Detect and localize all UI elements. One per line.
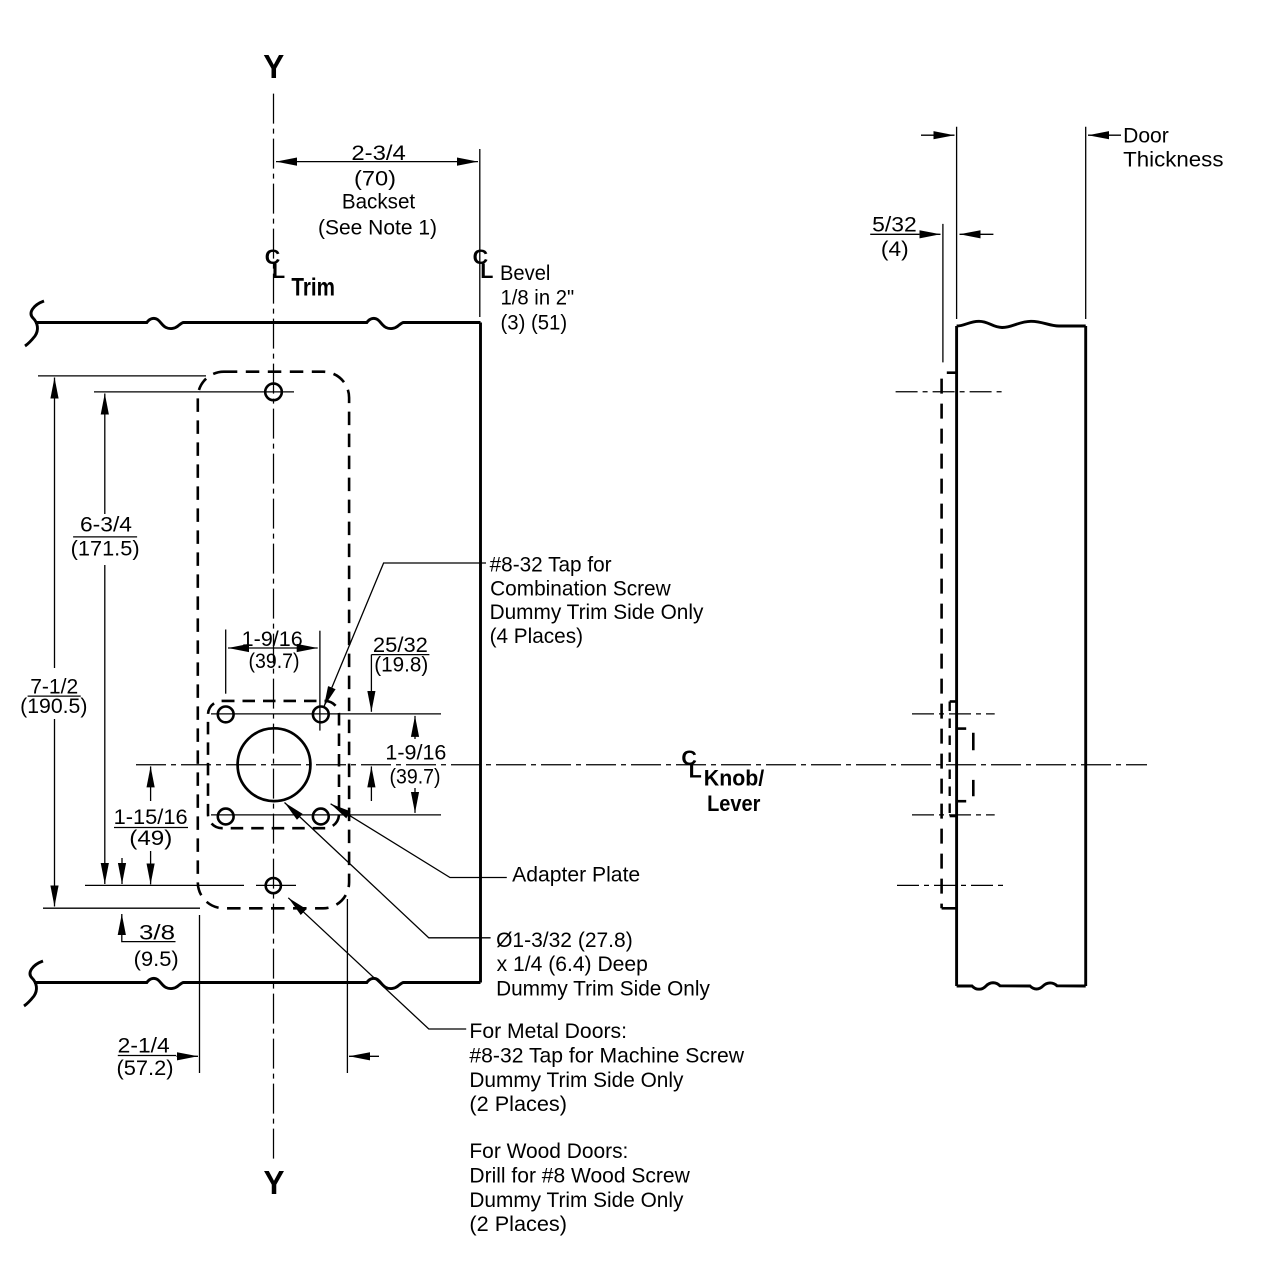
5/32 trim face extension line (942, 224, 944, 363)
5/32 underline (870, 233, 919, 235)
svg-text:Trim: Trim (291, 274, 335, 302)
door front view: right edge (479, 323, 482, 983)
svg-text:Y: Y (264, 1164, 285, 1201)
side view: centerline tick lower screws (912, 814, 995, 816)
dimension line 7-1/2 upper segment (54, 378, 56, 669)
svg-text:(2 Places): (2 Places) (469, 1212, 567, 1236)
svg-text:3/8: 3/8 (139, 921, 175, 945)
side view: recess hole bottom edge (957, 800, 966, 803)
svg-text:2-3/4: 2-3/4 (351, 141, 406, 165)
1-15/16 arrow down (150, 851, 152, 884)
backset right extension line (479, 149, 481, 317)
side view: trim top tick (947, 371, 957, 374)
row line top adapter screws (211, 713, 441, 715)
side view: centerline tick upper screws (912, 713, 995, 715)
2-1/4 extension right (346, 899, 348, 1073)
knob/lever hole circle (238, 728, 311, 801)
leader hole dia 1-3/32 (285, 803, 491, 938)
underline 2-1/4 (118, 1055, 176, 1057)
extension line through bottom screw row (85, 884, 244, 886)
svg-text:Adapter Plate: Adapter Plate (512, 863, 640, 887)
underline 7-1/2 (28, 695, 81, 697)
svg-text:(4 Places): (4 Places) (490, 624, 583, 648)
svg-text:(49): (49) (129, 826, 172, 850)
dimension line 6-3/4 lower segment (104, 565, 106, 884)
svg-text:Dummy Trim Side Only: Dummy Trim Side Only (490, 600, 704, 624)
svg-text:For Metal Doors:: For Metal Doors: (469, 1019, 627, 1043)
side view: recess hole depth dashed (972, 733, 975, 797)
side view: adapter plate bottom tick (950, 815, 957, 818)
svg-text:Dummy Trim Side Only: Dummy Trim Side Only (496, 976, 710, 1000)
side view: centerline tick bottom screw (897, 884, 1007, 886)
leader adapter plate (331, 804, 507, 878)
svg-text:Y: Y (263, 48, 284, 85)
25/32 arrow up to centerline (370, 766, 372, 801)
svg-text:(57.2): (57.2) (117, 1056, 174, 1080)
horizontal centerline knob/lever (136, 764, 1147, 766)
door thickness arrow right with tail to label (1088, 134, 1121, 136)
leader #8-32 tap combination screw (324, 563, 486, 707)
adapter screw hole bottom-left (218, 809, 234, 825)
right 1-9/16 arrow down (414, 788, 416, 813)
side view: recess hole top edge (957, 727, 966, 730)
side view: centerline tick top screw (896, 391, 1007, 393)
side view: door top edge with break (957, 321, 1086, 327)
side view: door back extension line (1085, 127, 1087, 319)
svg-text:Dummy Trim Side Only: Dummy Trim Side Only (469, 1188, 683, 1212)
svg-text:Knob/: Knob/ (704, 766, 764, 791)
extension 1-9/16 right (319, 631, 321, 731)
svg-text:(3) (51): (3) (51) (501, 310, 568, 334)
5/32 opposing arrow left (960, 233, 994, 235)
svg-text:6-3/4: 6-3/4 (80, 513, 132, 537)
3/8 arrow down (121, 858, 123, 884)
dimension line 1-9/16 horizontal (228, 647, 318, 649)
underline 6-3/4 (73, 536, 137, 538)
25/32 leader arrow down (370, 655, 372, 712)
svg-text:(9.5): (9.5) (134, 947, 179, 971)
svg-text:2-1/4: 2-1/4 (118, 1034, 170, 1058)
adapter plate outline dashed rounded rect (208, 701, 339, 828)
3/8 arrow up with bracket to underline (122, 914, 176, 942)
dimension line 6-3/4 upper segment (104, 394, 106, 515)
dimension line 7-1/2 lower segment (54, 719, 56, 907)
crosshair bottom screw (256, 884, 296, 886)
svg-text:Bevel: Bevel (500, 261, 550, 285)
svg-text:For Wood Doors:: For Wood Doors: (469, 1139, 628, 1163)
vertical centerline Y-Y (273, 94, 275, 1163)
svg-text:(70): (70) (354, 166, 396, 190)
side view: door bottom edge with break (957, 983, 1086, 989)
extension 1-9/16 left (225, 630, 227, 694)
extension line 6-3/4 top through top screw (94, 391, 294, 393)
right 1-9/16 arrow up (414, 716, 416, 739)
side view: door right face (1084, 326, 1087, 986)
svg-text:L: L (480, 259, 493, 283)
svg-text:x 1/4 (6.4) Deep: x 1/4 (6.4) Deep (497, 952, 648, 976)
side view: adapter plate face dashed (949, 702, 951, 817)
1-15/16 arrow up to centerline (150, 766, 152, 801)
svg-text:(2 Places): (2 Places) (469, 1092, 567, 1116)
svg-text:1/8 in 2": 1/8 in 2" (501, 286, 575, 310)
2-1/4 arrow left (349, 1055, 379, 1057)
svg-text:Thickness: Thickness (1123, 147, 1223, 171)
door thickness arrow left (921, 134, 955, 136)
svg-text:1-9/16: 1-9/16 (242, 627, 303, 651)
svg-text:Combination Screw: Combination Screw (490, 577, 671, 601)
leader for metal doors (288, 898, 466, 1029)
svg-text:(19.8): (19.8) (374, 653, 428, 677)
svg-text:(171.5): (171.5) (71, 536, 140, 560)
5/32 arrow right (919, 233, 940, 235)
svg-text:Dummy Trim Side Only: Dummy Trim Side Only (469, 1068, 683, 1092)
door front view: bottom edge with break squiggles (34, 978, 481, 988)
svg-text:Backset: Backset (342, 190, 415, 214)
svg-text:L: L (689, 759, 702, 783)
svg-text:Ø1-3/32 (27.8): Ø1-3/32 (27.8) (496, 928, 633, 952)
svg-text:L: L (272, 259, 285, 283)
side view: adapter plate top tick (950, 700, 957, 703)
svg-text:(39.7): (39.7) (249, 649, 300, 673)
svg-text:(190.5): (190.5) (20, 694, 87, 718)
row line bottom adapter screws (211, 814, 441, 816)
trim mounting screw hole bottom (266, 878, 281, 893)
25/32 underline (371, 654, 429, 656)
svg-text:Door: Door (1123, 124, 1169, 148)
svg-text:(39.7): (39.7) (390, 765, 441, 789)
door front view: top edge with break squiggles (35, 318, 481, 328)
side view: trim bottom tick (942, 907, 957, 910)
svg-text:Drill for #8 Wood Screw: Drill for #8 Wood Screw (469, 1164, 690, 1188)
dummy trim outline dashed rounded rect (198, 372, 349, 909)
svg-text:(See Note 1): (See Note 1) (318, 216, 437, 240)
backset dimension line (276, 161, 478, 163)
door front view: left break S-curve top (25, 301, 44, 346)
svg-text:#8-32 Tap for: #8-32 Tap for (490, 552, 612, 576)
2-1/4 arrow right (177, 1055, 199, 1057)
side view: door face extension line (956, 127, 958, 319)
svg-text:1-9/16: 1-9/16 (385, 741, 446, 765)
svg-text:5/32: 5/32 (872, 212, 917, 236)
2-1/4 extension left (199, 915, 201, 1073)
side view: door left face (955, 326, 958, 986)
trim mounting screw hole top (265, 384, 282, 401)
side view: trim outer face dashed (940, 379, 943, 909)
adapter screw hole bottom-right (313, 809, 329, 825)
svg-text:Lever: Lever (707, 791, 761, 816)
door front view: left break S-curve bottom (24, 961, 43, 1006)
underline 1-15/16 (114, 827, 188, 829)
adapter screw hole top-right (313, 707, 329, 723)
adapter screw hole top-left (218, 707, 234, 723)
extension line 7-1/2 bottom (43, 907, 200, 909)
svg-text:#8-32 Tap for Machine Screw: #8-32 Tap for Machine Screw (469, 1044, 744, 1068)
extension line 7-1/2 top (38, 375, 206, 377)
svg-text:(4): (4) (881, 237, 909, 261)
